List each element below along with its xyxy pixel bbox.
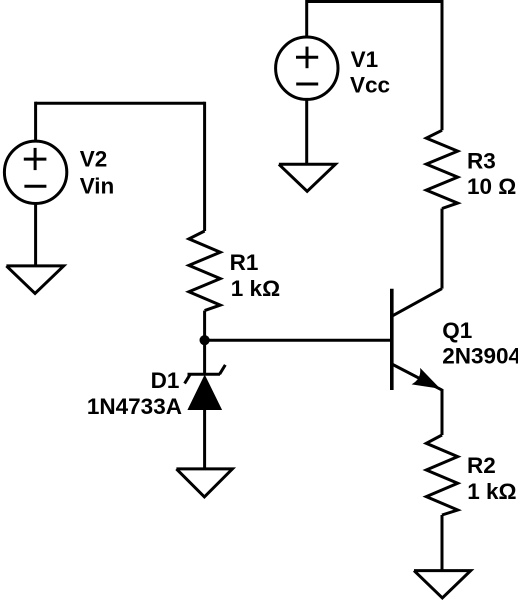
svg-text:R1: R1 [230, 250, 259, 275]
wire: R2 bottom to ground [441, 515, 444, 571]
svg-text:Vin: Vin [80, 174, 115, 199]
svg-text:R2: R2 [467, 453, 496, 478]
wire: base wire node A to Q1 [205, 339, 392, 342]
resistor R1 [189, 231, 220, 311]
svg-text:Vcc: Vcc [350, 73, 390, 98]
resistor R2 [426, 435, 457, 515]
transistor Q1 [392, 289, 442, 391]
wire: V2 bottom to ground [34, 203, 37, 266]
wire: D1 anode to ground [203, 410, 206, 469]
zener diode D1 [185, 365, 226, 384]
ground (below V1) [279, 164, 336, 191]
wire: V2 top stem [34, 102, 37, 142]
svg-text:1 kΩ: 1 kΩ [231, 276, 280, 301]
voltage source V1 [276, 37, 338, 99]
ground (below V2) [6, 266, 63, 294]
svg-text:10 Ω: 10 Ω [467, 174, 516, 199]
svg-text:Q1: Q1 [442, 318, 472, 343]
svg-text:V1: V1 [351, 47, 379, 72]
ground (below R2) [414, 571, 471, 598]
zener diode D1 triangle (anode) [187, 375, 222, 411]
wire: Q1 emitter to R2 top [441, 389, 444, 435]
svg-text:D1: D1 [151, 368, 180, 393]
svg-text:V2: V2 [80, 147, 108, 172]
wire: V1 bottom to ground [305, 99, 308, 164]
wire: top rail from V1 to R3 [307, 0, 442, 3]
voltage source V2 [4, 141, 66, 203]
svg-text:1N4733A: 1N4733A [87, 394, 182, 419]
transistor Q1 emitter arrow [414, 370, 439, 388]
wire: R1 bottom to node A [203, 311, 206, 341]
wire: R3 bottom to collector corner [441, 209, 444, 289]
svg-text:R3: R3 [467, 149, 496, 174]
svg-text:2N3904: 2N3904 [442, 344, 518, 369]
wire: node A to zener D1 cathode [203, 340, 206, 374]
ground (below D1) [176, 469, 232, 497]
wire: V1 top stem [305, 0, 308, 38]
resistor R3 [426, 130, 457, 208]
node A junction dot [200, 335, 210, 345]
wire: R1 top drop [203, 102, 206, 231]
wire: right rail Vcc to R3 top [441, 0, 444, 130]
wire: V2 top rail [36, 102, 205, 105]
svg-text:1 kΩ: 1 kΩ [467, 479, 516, 504]
